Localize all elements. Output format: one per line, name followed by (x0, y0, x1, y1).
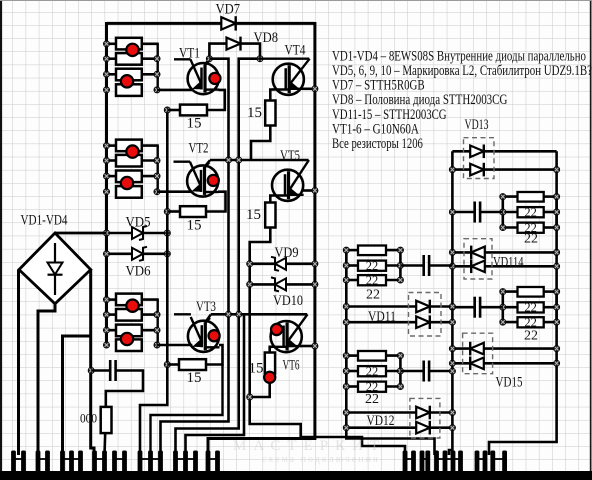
svg-text:схема подключения: схема подключения (262, 454, 380, 465)
svg-text:VD11: VD11 (368, 309, 396, 325)
junction bus (103, 56, 109, 62)
resistor 22 a (518, 287, 544, 297)
wire right bus (208, 22, 315, 455)
resistor R-VT5 15 (265, 203, 275, 228)
svg-text:15: 15 (247, 105, 262, 121)
junction stack a (500, 319, 506, 325)
wire bridge bottom out (38, 304, 55, 455)
svg-text:VD7: VD7 (216, 2, 241, 18)
border right edge (590, 0, 592, 480)
resistor block 1 (116, 140, 142, 152)
junction stack a (500, 289, 506, 295)
junction VD114 l1 (449, 249, 455, 255)
capacitor C000 (110, 360, 115, 381)
diode VD11b (416, 315, 430, 329)
wire VD11 row1 (346, 305, 452, 308)
junction bus (103, 342, 109, 348)
svg-text:22: 22 (366, 259, 379, 273)
svg-text:VT3: VT3 (196, 299, 216, 315)
svg-text:15: 15 (187, 116, 202, 132)
junction VT6 collector bus (312, 343, 318, 349)
wire block rail right (156, 146, 158, 192)
junction rail (154, 56, 160, 62)
wire VT3 collector (205, 315, 211, 323)
transistor VT1 (188, 59, 221, 94)
wire stack stubs (346, 249, 360, 252)
wire gate line VT6 (211, 313, 307, 316)
resistor block 4 (116, 339, 142, 351)
junction VT4 collector bus (312, 86, 318, 92)
diode VD114a (471, 246, 485, 260)
wire VD12 row2 (346, 426, 452, 429)
resistor R-VT1 15 (180, 105, 207, 116)
junction VD15 r1 (554, 346, 560, 352)
marking dot lower (121, 177, 133, 189)
junction stack a (500, 209, 506, 215)
junction stack b (554, 319, 560, 325)
box VD15 (463, 333, 493, 374)
svg-text:VD8: VD8 (254, 30, 279, 46)
junction rail (154, 189, 160, 195)
junction rail (154, 173, 160, 179)
wire VT6 collector path (270, 347, 272, 354)
diode VD7 (221, 16, 235, 30)
svg-text:VD15: VD15 (496, 375, 523, 391)
junction bridge cap (88, 367, 94, 373)
wire VT6 collector (301, 345, 315, 348)
svg-text:VT5: VT5 (280, 148, 300, 164)
junction stack a (343, 277, 349, 283)
wire block row2 stubs (107, 57, 119, 60)
resistor block 2 (116, 155, 142, 167)
wire VD5 net (55, 232, 167, 235)
marking dot lower (121, 333, 133, 345)
wire VD10 net (250, 283, 315, 286)
diode VD15b (470, 357, 484, 371)
wire cap000 lead (91, 369, 110, 372)
wire bridge right out (91, 270, 94, 455)
resistor 22 a (518, 192, 544, 202)
wire VT4 collector (303, 88, 315, 91)
junction stack b (397, 353, 403, 359)
junction VD114 r2 (554, 263, 560, 269)
junction bus (103, 143, 109, 149)
resistor block 2 (116, 53, 142, 65)
diode VD15a (470, 342, 484, 356)
resistor 22 b (358, 261, 386, 271)
transistor VT4 (272, 59, 309, 95)
junction VD12 r2 (449, 425, 455, 431)
wire stack rail b (555, 292, 558, 323)
resistor 22 b (518, 302, 544, 312)
wire top rail (107, 22, 315, 25)
junction stack a (343, 262, 349, 268)
info text block (332, 47, 592, 152)
junction VD6 rail (164, 251, 170, 257)
junction VD114 l2 (449, 263, 455, 269)
bridge VD1-VD4 body (19, 233, 91, 304)
wire VD12 row1 (346, 411, 452, 414)
junction VD114 r1 (554, 249, 560, 255)
wire block row1 stubs (107, 144, 119, 147)
svg-text:VD13: VD13 (465, 117, 489, 133)
wire drive line A (161, 59, 229, 455)
svg-text:22: 22 (365, 392, 379, 407)
resistor 22 c (358, 275, 386, 285)
junction VD13 l2 (449, 167, 455, 173)
wire block row2 stubs (107, 159, 119, 162)
svg-text:VT6: VT6 (283, 357, 300, 373)
junction VD10 right (312, 281, 318, 287)
junction bus (103, 312, 109, 318)
marking dot upper (126, 300, 138, 312)
wire stack stubs (346, 354, 360, 357)
junction stack b (397, 368, 403, 374)
junction VD6 bus (103, 251, 109, 257)
wire CC leads (452, 306, 474, 309)
wire stack rail a (345, 356, 348, 387)
diode VD8 (227, 37, 241, 51)
resistor 22 b (358, 366, 386, 376)
wire block row3 stubs (107, 175, 119, 178)
junction VD9 right (312, 261, 318, 267)
svg-text:22: 22 (524, 301, 537, 315)
wire VD11 row2 (346, 321, 452, 324)
junction VD5 rail (164, 230, 170, 236)
wire VD9 net (250, 262, 315, 265)
svg-text:22: 22 (524, 232, 538, 247)
wire VT1 emitter loop (208, 90, 225, 110)
svg-text:VD12: VD12 (367, 413, 395, 429)
wire VD114 row1 (452, 251, 556, 254)
wire bridge top out (55, 232, 107, 235)
transistor VT5 (272, 160, 309, 201)
svg-text:15: 15 (187, 370, 202, 386)
wire rail xL (346, 250, 434, 455)
junction VT1 collector (206, 56, 212, 62)
resistor R-VT4 15 (265, 101, 275, 126)
wire block row1 stubs (107, 42, 119, 45)
svg-text:15: 15 (246, 207, 261, 223)
wire stack rail a (345, 250, 348, 280)
transistor VT6 (270, 314, 307, 352)
svg-text:22: 22 (524, 205, 537, 219)
junction stack b (397, 247, 403, 253)
wire left bus (105, 22, 108, 345)
junction gl314 a (225, 311, 231, 317)
junction VD12 l2 (343, 425, 349, 431)
junction bus (103, 157, 109, 163)
wire emitter line VT1 (157, 89, 193, 92)
junction VD12 l1 (343, 409, 349, 415)
junction stack b (554, 209, 560, 215)
wire drive line D (250, 314, 405, 455)
junction gl160 b (236, 157, 242, 163)
junction gl160 a (225, 157, 231, 163)
junction VD11 r1 (449, 303, 455, 309)
junction VD15 r2 (554, 360, 560, 366)
wire bridge branch (63, 336, 91, 455)
wire stack rail b (399, 356, 402, 387)
zener VD9 (271, 257, 286, 271)
junction VD11 l1 (343, 303, 349, 309)
wire VD114 row2 (452, 265, 556, 268)
wire CD leads (400, 370, 423, 373)
watermark (233, 438, 386, 465)
junction drive D (247, 394, 253, 400)
marking dot upper (126, 145, 138, 157)
svg-text:VD1-VD4: VD1-VD4 (21, 213, 68, 229)
wire VT2 collector (205, 160, 211, 167)
junction VD15 l1 (449, 346, 455, 352)
capacitor CD (424, 361, 429, 382)
junction stack a (500, 304, 506, 310)
capacitor CC (475, 297, 480, 318)
wire stack rail a (501, 197, 504, 228)
junction rail (154, 327, 160, 333)
junction VD13 r2 (554, 167, 560, 173)
connector left pin header (11, 451, 220, 475)
svg-text:22: 22 (524, 328, 538, 343)
junction rail (154, 87, 160, 93)
wire stack stubs (503, 290, 520, 293)
junction rail (154, 312, 160, 318)
junction stack a (343, 383, 349, 389)
connector right pin header (403, 451, 507, 475)
resistor 22 a (358, 351, 386, 361)
junction VD11 l2 (343, 319, 349, 325)
junction CC left (449, 304, 455, 310)
diode VD12a (416, 406, 430, 420)
junction return 110 (164, 107, 170, 113)
svg-text:VT2: VT2 (189, 141, 209, 157)
junction bus (103, 71, 109, 77)
wire VT3 emitter loop (207, 345, 223, 365)
wire gate line VT5 (210, 159, 309, 162)
zener VD6 (132, 247, 147, 261)
resistor block 3 (116, 171, 142, 183)
wire block rail right (156, 300, 158, 345)
wire VT4 gate lead (259, 58, 310, 60)
transistor VT2 (187, 162, 219, 197)
wire VD8 link (209, 44, 260, 59)
wire R-VT3 left lead (167, 363, 179, 366)
wire gate return rail (140, 110, 167, 455)
svg-text:МАСТЕРКИТ: МАСТЕРКИТ (233, 438, 386, 454)
connector base bar (0, 471, 592, 480)
resistor 22 b (518, 207, 544, 217)
junction bus (103, 189, 109, 195)
wire VT5 collector (302, 189, 315, 192)
junction stack b (397, 383, 403, 389)
resistor block 3 (116, 69, 142, 81)
wire drive line B (176, 59, 261, 455)
wire rail xR1 (449, 151, 452, 455)
junction return 211 (164, 208, 170, 214)
svg-text:000: 000 (80, 411, 97, 425)
wire VD6 net (107, 253, 168, 256)
resistor block 2 (116, 309, 142, 321)
junction VD15 l2 (449, 360, 455, 366)
wire block row3 stubs (107, 73, 119, 76)
wire stack rail a (501, 292, 504, 323)
wire R000 bottom (103, 433, 106, 455)
wire CB leads (400, 264, 423, 267)
wire bridge left out (17, 270, 20, 455)
wire VT2 gate lead (174, 160, 191, 162)
junction VD9 left (247, 261, 253, 267)
svg-text:15: 15 (187, 218, 202, 234)
junction rail (154, 71, 160, 77)
junction CA left (449, 209, 455, 215)
marking dot R-VT6 (264, 372, 275, 383)
border left edge (0, 0, 2, 480)
border top edge (0, 0, 592, 2)
junction VD10 left (247, 281, 253, 287)
junction bus (103, 173, 109, 179)
wire VT3 gate lead (174, 313, 191, 315)
wire drive line C (186, 314, 245, 455)
resistor block 1 (116, 294, 142, 306)
junction bus (103, 297, 109, 303)
junction stack a (343, 353, 349, 359)
junction stack b (397, 277, 403, 283)
junction stack b (397, 262, 403, 268)
capacitor CB (424, 255, 429, 276)
wire stack rail b (555, 197, 558, 228)
resistor R000 (101, 407, 112, 433)
resistor R-VT6 15 (265, 353, 275, 374)
svg-text:VD6: VD6 (126, 264, 151, 280)
junction rail (154, 157, 160, 163)
wire VT2 emitter loop (207, 192, 226, 212)
marking dot lower (121, 75, 133, 87)
diode VD13a (470, 145, 484, 159)
junction VD12 r1 (449, 409, 455, 415)
box VD11 (409, 293, 442, 337)
zener VD5 (132, 226, 147, 240)
capacitor CA (475, 202, 480, 223)
wire R-VT2 left lead (167, 210, 180, 213)
svg-text:VD114: VD114 (493, 254, 524, 270)
junction stack b (554, 289, 560, 295)
bridge inner diode (48, 243, 63, 295)
junction stack b (554, 304, 560, 310)
junction VD8 right (257, 56, 263, 62)
junction stack b (554, 194, 560, 200)
wire VT3 emitter sense (151, 365, 223, 456)
junction bus (103, 41, 109, 47)
zener VD10 (271, 277, 286, 291)
box VD13 (464, 138, 495, 179)
junction bus (103, 327, 109, 333)
marking dot upper (126, 44, 138, 56)
svg-text:VD9: VD9 (275, 245, 299, 261)
junction VT5 collector bus (312, 187, 318, 193)
svg-text:VD10: VD10 (273, 293, 303, 309)
wire VT1 gate lead (174, 58, 191, 60)
junction rail (154, 342, 160, 348)
diode VD12b (416, 421, 430, 435)
junction return 364 (164, 361, 170, 367)
wire block row1 stubs (107, 298, 119, 301)
svg-text:VD5: VD5 (126, 214, 151, 230)
wire block rail right (156, 44, 158, 90)
wire stack stubs (503, 195, 520, 198)
wire cap000 right (106, 371, 143, 408)
wire block row2 stubs (107, 313, 119, 316)
svg-text:VT4: VT4 (285, 42, 306, 58)
junction bus (103, 87, 109, 93)
wire emitter line VT2 (157, 190, 192, 193)
wire VD13 row1 (452, 150, 556, 153)
svg-text:22: 22 (366, 364, 379, 378)
resistor block 1 (116, 38, 142, 50)
wire emitter line VT3 (157, 344, 193, 347)
wire stack rail b (399, 250, 402, 280)
junction stack a (500, 194, 506, 200)
wire R-VT4 bottom (251, 126, 270, 161)
resistor 22 c (358, 382, 386, 392)
wire VD15 row1 (452, 347, 556, 350)
resistor 22 c (518, 317, 544, 327)
resistor 22 c (518, 223, 544, 233)
junction VD11 r2 (449, 319, 455, 325)
svg-text:22: 22 (366, 273, 379, 287)
junction stack a (500, 224, 506, 230)
junction stack a (343, 247, 349, 253)
junction stack b (554, 224, 560, 230)
svg-text:22: 22 (524, 316, 537, 330)
wire R-VT5 bottom (250, 228, 271, 315)
transistor VT3 (188, 317, 220, 352)
resistor R-VT3 15 (179, 359, 206, 370)
wire rail xR2 (489, 151, 557, 455)
diode VD11a (416, 300, 430, 314)
diode VD114b (471, 260, 485, 274)
wire VD15 row2 (452, 362, 556, 365)
junction VD5 bus (103, 230, 109, 236)
resistor block 3 (116, 325, 142, 337)
diode VD13b (470, 163, 484, 177)
wire VD13 row2 (452, 168, 556, 171)
svg-text:Все резисторы 1206: Все резисторы 1206 (332, 135, 423, 152)
wire VT1 collector (205, 59, 209, 65)
junction CD right (449, 368, 455, 374)
resistor block 4 (116, 186, 142, 198)
wire VT5 collector path (270, 196, 272, 204)
resistor block 4 (116, 84, 142, 96)
resistor R-VT2 15 (180, 206, 206, 217)
box VD12 (410, 398, 440, 438)
resistor 22 a (358, 246, 386, 256)
wire VT4 collector path (270, 90, 273, 102)
wire block row3 stubs (107, 329, 119, 332)
junction gl314 b (236, 311, 242, 317)
wire CA leads (452, 211, 474, 214)
svg-text:22: 22 (366, 288, 380, 303)
junction stack a (343, 368, 349, 374)
box VD114 (464, 239, 492, 279)
wire R-VT6 bottom (250, 383, 270, 398)
wire R-VT1 left lead (167, 109, 180, 112)
